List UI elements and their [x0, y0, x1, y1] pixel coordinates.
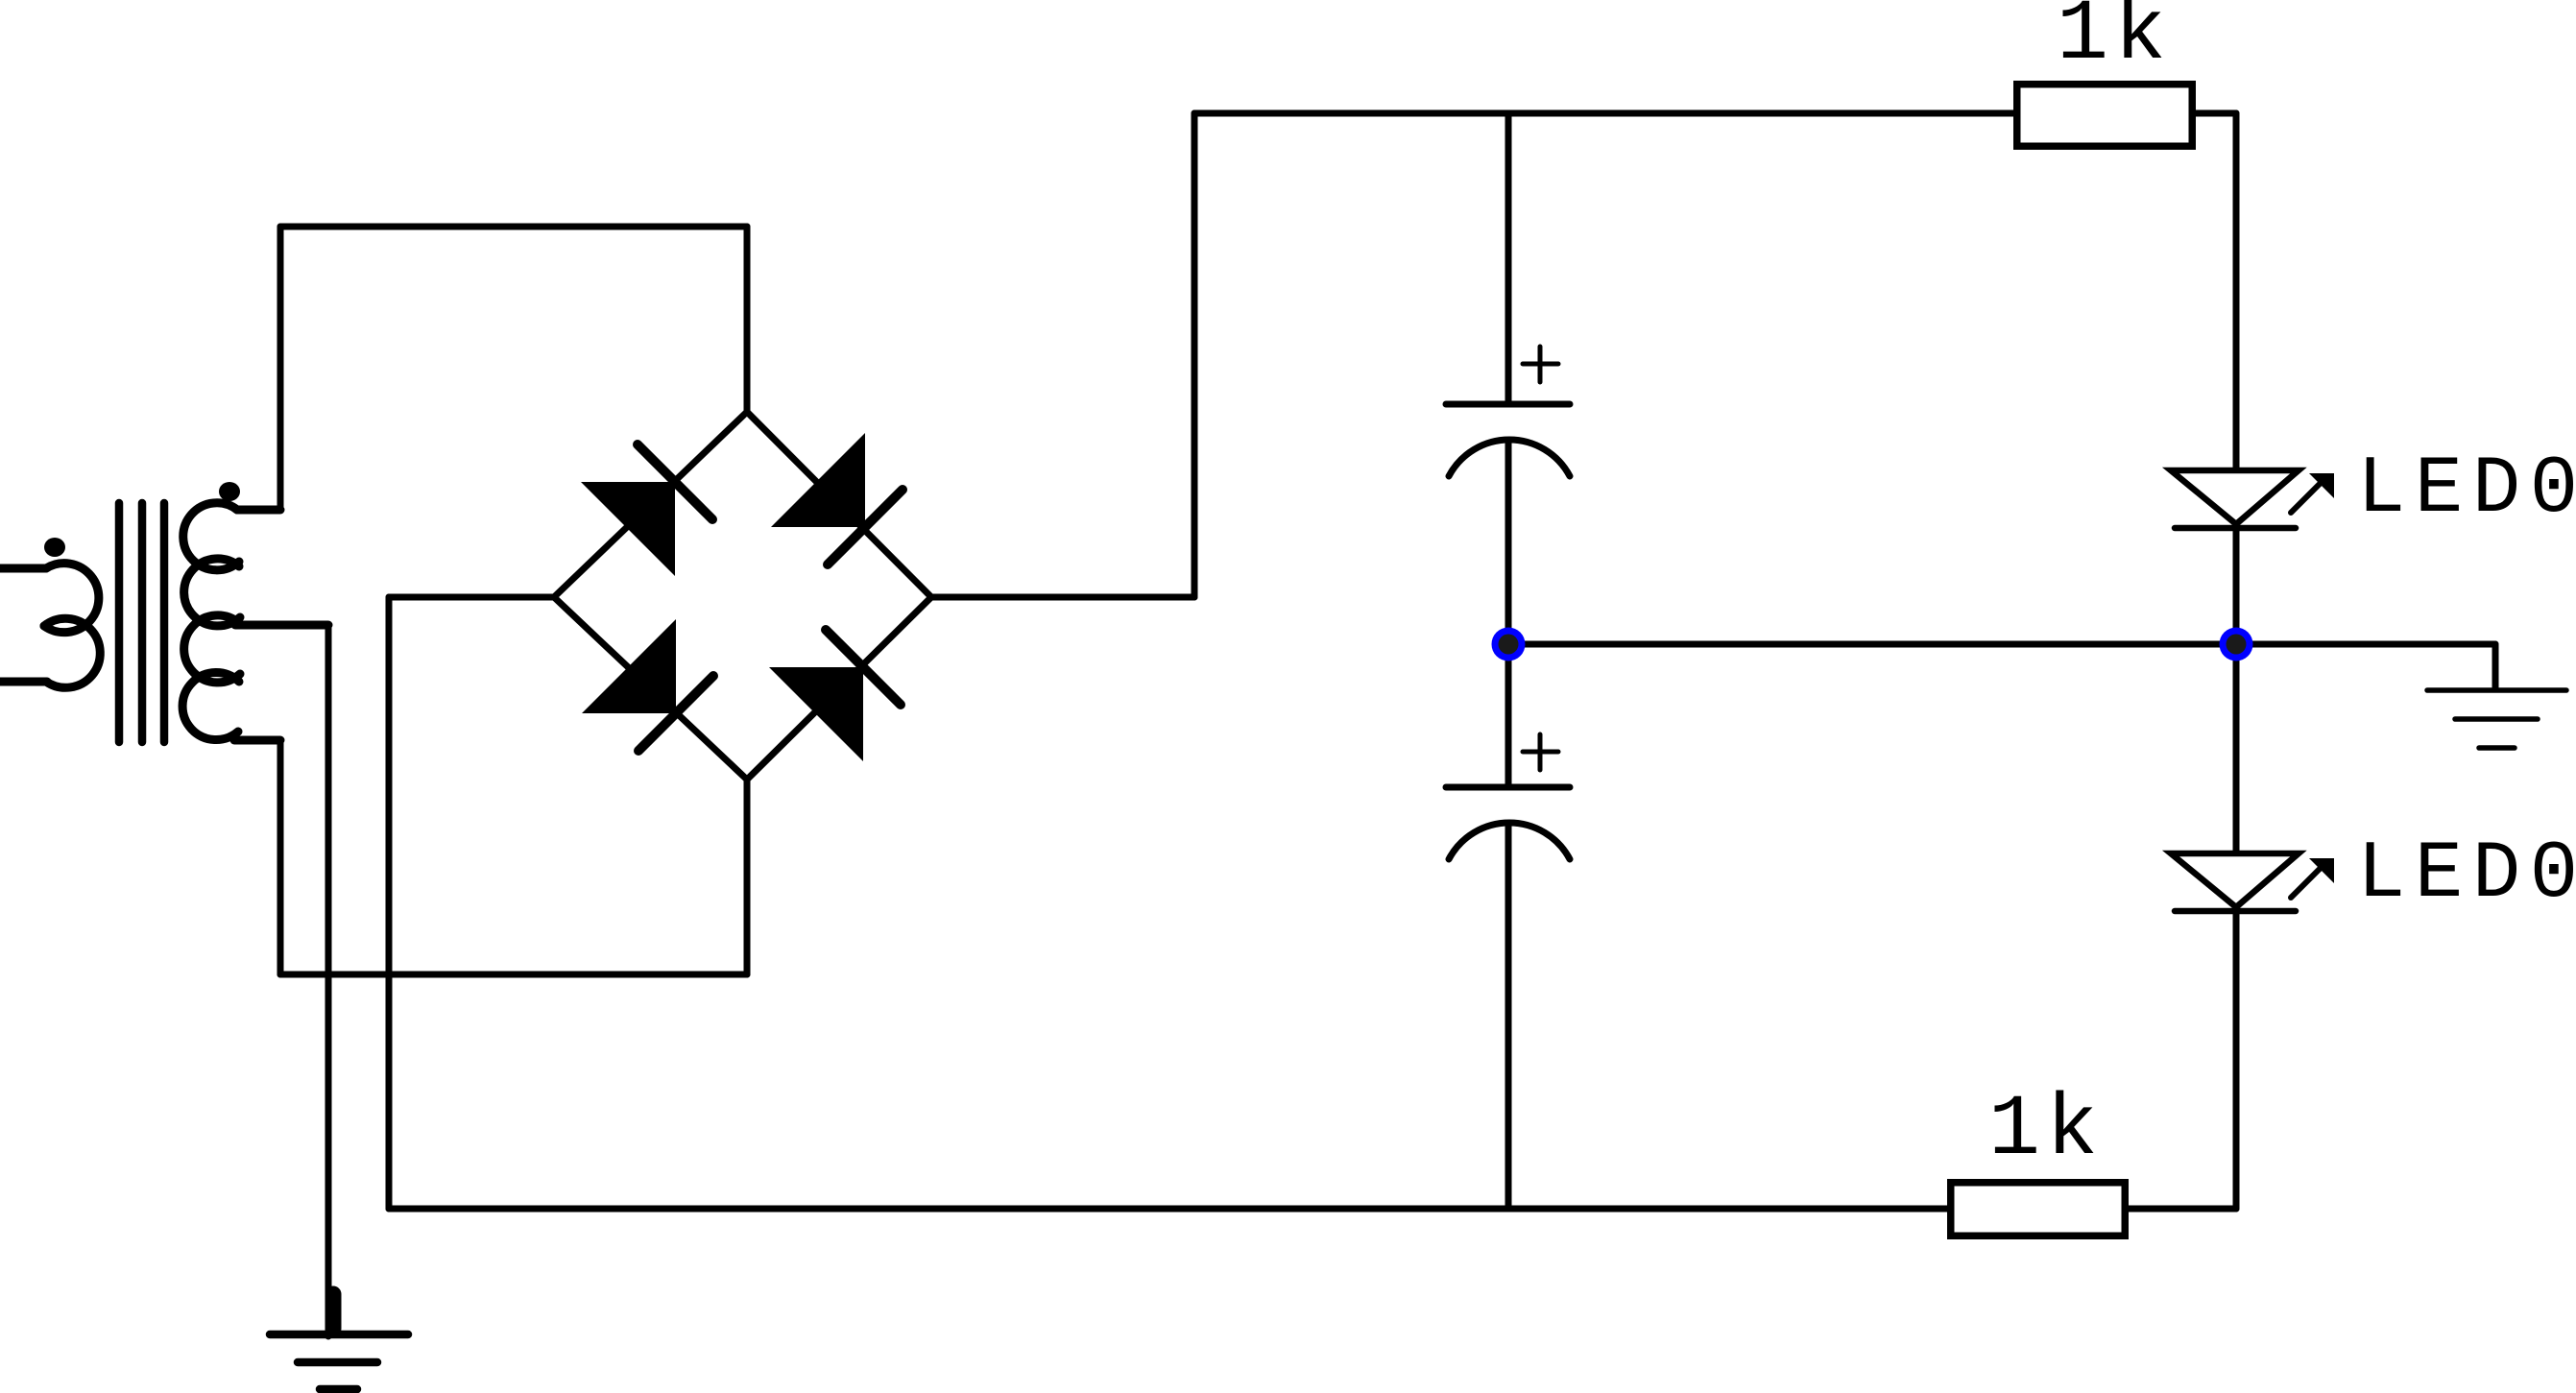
ground left bar 3 [320, 1385, 357, 1393]
capacitor C1 curved plate [1449, 440, 1570, 476]
transformer T1 primary bottom lead [0, 678, 47, 686]
bridge side top-left [554, 412, 747, 597]
wire center tap horizontal [235, 621, 328, 630]
diode D1 top-left triangle [581, 482, 675, 576]
wire mid rail between nodes [1508, 641, 2236, 648]
capacitor C1 positive plate [1446, 401, 1570, 408]
bridge side top-right [747, 412, 931, 597]
svg-text:1k: 1k [1988, 1082, 2104, 1180]
transformer T1 core line 2 [138, 503, 147, 742]
diode D3 cathode bar [638, 676, 713, 751]
transformer T1 secondary winding loop 2 [184, 559, 240, 626]
transformer T1 secondary winding loop 4 [182, 673, 239, 740]
wire LED1 to LED2 through node [2233, 528, 2240, 853]
wire C2 to bottom rail [1505, 824, 1512, 1209]
ground right bar 3 [2479, 745, 2515, 751]
diode D2 cathode bar [828, 490, 903, 564]
junction node A on capacitor chain [1492, 628, 1526, 661]
resistor R2 body [1951, 1183, 2126, 1237]
wire left drop to bottom rail [386, 597, 393, 1209]
wire bridge plus output right [931, 594, 1194, 601]
diode D2 top-right triangle [771, 433, 865, 527]
transformer T1 core line 1 [115, 503, 124, 742]
wire right ground lead [2492, 644, 2499, 688]
bridge side bottom-left [554, 597, 747, 780]
transformer T1 secondary bottom stub [234, 736, 280, 745]
wire bottom rail [389, 1206, 1951, 1213]
ground left thick lead [325, 1294, 342, 1329]
ground right bar 2 [2455, 716, 2538, 722]
wire up to bridge AC bottom [744, 780, 751, 974]
wire down to LED1 [2233, 113, 2240, 470]
wire bottom-left rail [280, 972, 747, 978]
ground left bar 2 [298, 1358, 377, 1367]
wire top-left rail [280, 224, 747, 230]
wire from secondary top up [277, 227, 284, 510]
LED1 cathode bar [2175, 525, 2296, 532]
ground left bar 1 [270, 1331, 408, 1339]
wire R1 to corner [2194, 110, 2236, 117]
capacitor C2 curved plate [1449, 823, 1570, 859]
junction node B on LED chain [2220, 628, 2253, 661]
diode D3 bottom-left triangle [582, 619, 676, 713]
transformer T1 secondary top stub [237, 506, 280, 515]
resistor R1 body [2017, 84, 2193, 147]
svg-text:1k: 1k [2057, 0, 2172, 84]
LED1 arrow shaft [2291, 484, 2320, 513]
wire R2 right to corner [2125, 1206, 2236, 1213]
LED2 cathode bar [2175, 908, 2296, 915]
transformer T1 secondary winding loop 3 [184, 615, 240, 683]
transformer T1 core line 3 [160, 503, 169, 742]
transformer T1 primary winding loop 1 [44, 564, 99, 633]
wire C1 to node [1505, 441, 1512, 644]
LED1 triangle [2171, 470, 2299, 524]
diode D1 cathode bar [638, 444, 712, 519]
wire up right riser [1192, 113, 1198, 597]
transformer T1 secondary winding loop 1 [183, 503, 239, 570]
LED2 arrow shaft [2291, 869, 2320, 898]
diode D4 bottom-right triangle [769, 667, 863, 761]
wire down to bridge AC top [744, 227, 751, 412]
wire up to LED2 [2233, 911, 2240, 1209]
wire top rail to R1 [1194, 110, 2015, 117]
transformer T1 primary top lead [0, 564, 46, 573]
capacitor C2 positive plate [1446, 784, 1570, 791]
wire bridge minus output left [389, 594, 554, 601]
wire center tap down to ground [325, 625, 332, 1336]
capacitor C1 plus sign [1523, 362, 1558, 367]
transformer T1 primary winding loop 2 [44, 618, 100, 687]
capacitor C2 plus sign [1523, 750, 1558, 755]
ground right bar 1 [2427, 687, 2566, 693]
LED2 triangle [2171, 853, 2299, 907]
wire node to C2 [1505, 644, 1512, 787]
LED2 arrow head [2309, 858, 2334, 883]
wire node to right ground [2236, 641, 2495, 648]
wire capacitor chain top [1505, 113, 1512, 404]
bridge side bottom-right [747, 597, 931, 780]
wire from secondary bottom down [277, 740, 284, 974]
LED1 arrow head [2309, 473, 2334, 498]
svg-text:LED0: LED0 [2357, 444, 2576, 536]
transformer T1 secondary polarity dot [219, 482, 240, 501]
transformer T1 primary polarity dot [44, 538, 65, 557]
svg-text:LED0: LED0 [2357, 829, 2576, 921]
diode D4 cathode bar [826, 630, 901, 705]
